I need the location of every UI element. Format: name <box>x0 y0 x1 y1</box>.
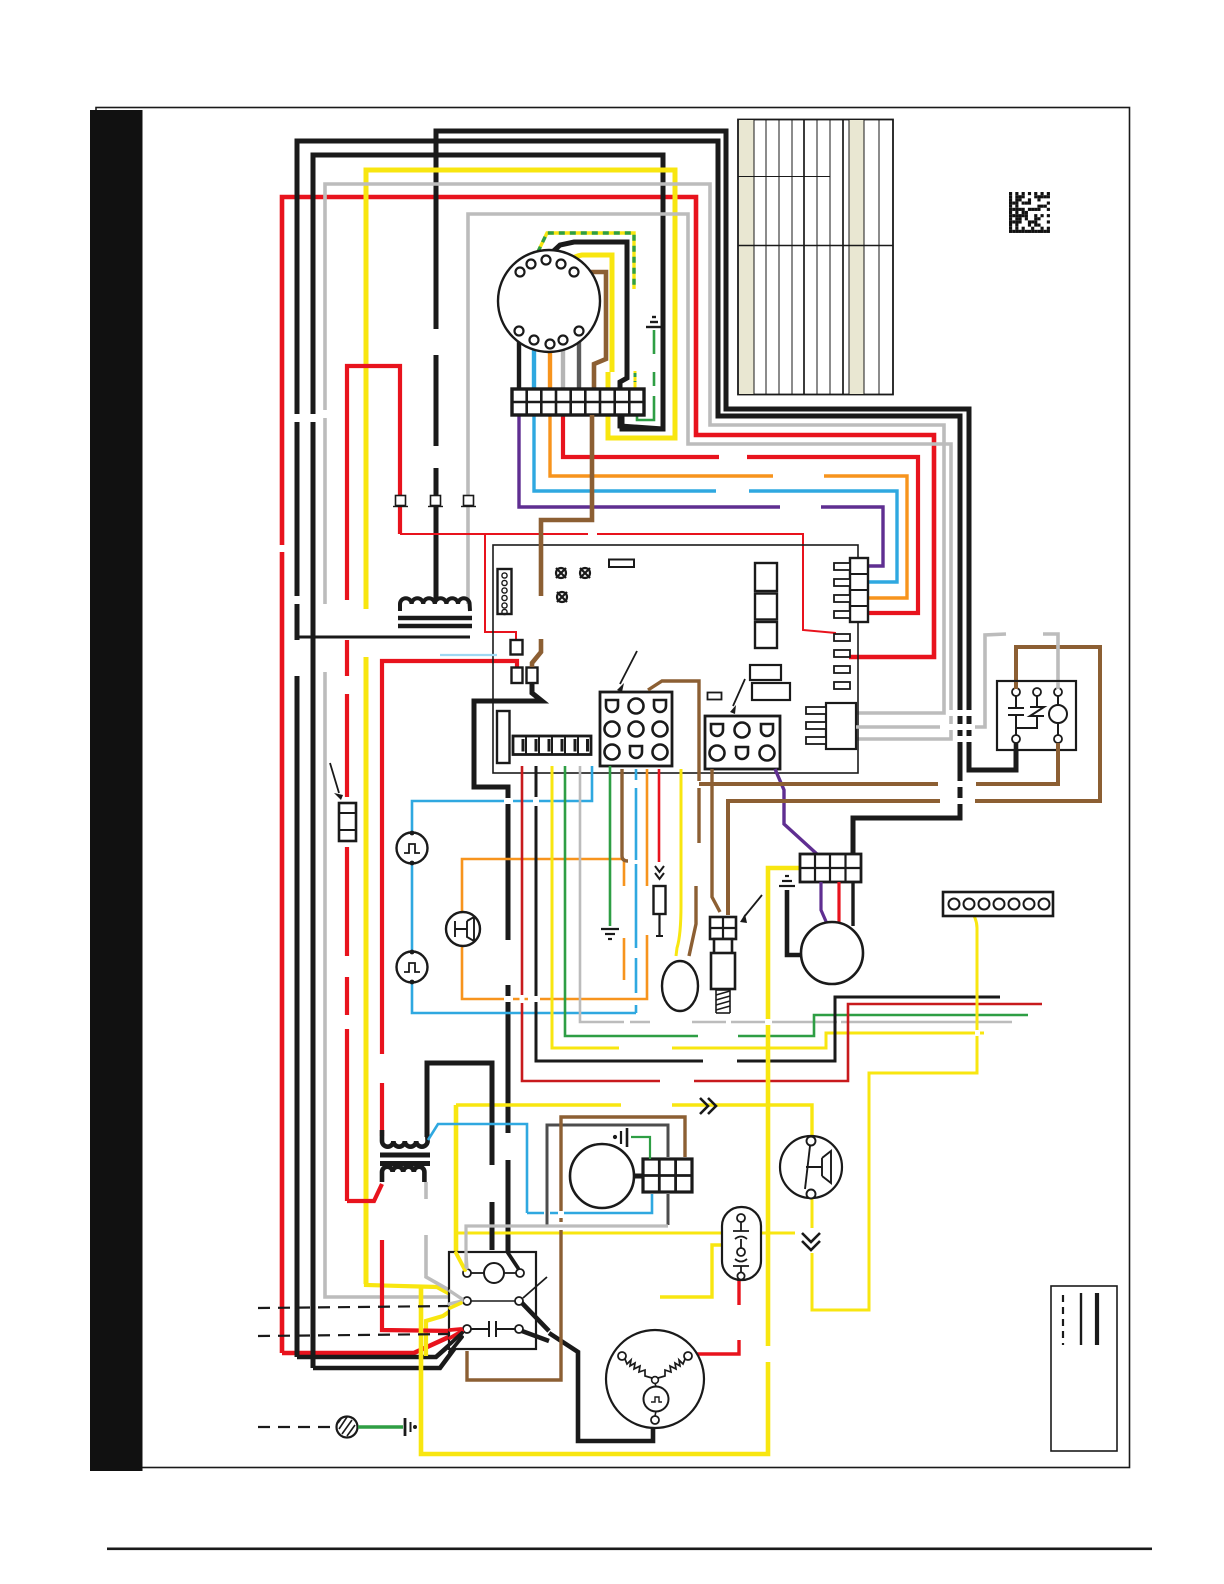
capacitor bank rect3 <box>755 622 777 648</box>
ground green wire at switch <box>637 330 654 420</box>
wire black bus B1 <box>436 131 1016 770</box>
wire gray bus GB <box>468 214 951 739</box>
wire brown relay B <box>699 739 1058 784</box>
wire thick black module ground <box>474 684 542 1268</box>
wire red thin fuse drop <box>485 534 516 641</box>
wire crossing breaks <box>279 545 286 552</box>
wire black bus B2 <box>297 141 960 1357</box>
ignition switch body <box>498 250 600 352</box>
wire purple to starter block <box>775 769 818 855</box>
wire red coil feed <box>382 661 517 1136</box>
arrow to 9-pin connector <box>620 651 637 684</box>
trigger link stub <box>634 1174 644 1179</box>
starter motor <box>801 922 863 984</box>
wire yellow-green striped safety lead <box>533 233 634 289</box>
9-pin round connector <box>600 692 672 766</box>
wire black pin lead <box>517 334 521 390</box>
ground symbol trigger <box>613 1128 627 1147</box>
hatched terminal circle <box>337 1417 358 1438</box>
wire red block to starter <box>837 882 840 934</box>
6-pin header inside module <box>498 569 512 615</box>
mounting hole X2 <box>580 568 590 578</box>
trigger connector grid 2x3 <box>643 1159 692 1192</box>
test spark plug <box>654 866 666 936</box>
wire blue pin lead <box>532 344 536 390</box>
wire yellow module to terminal strip <box>552 766 984 1048</box>
ignition coil transformer top <box>398 598 472 626</box>
wire black points to flywheel <box>522 1303 653 1441</box>
aux connector right edge <box>806 703 856 749</box>
wire orange pin lead <box>548 348 552 390</box>
wire brown relay A <box>728 647 1100 915</box>
small rect above 6-pin <box>708 693 722 700</box>
wire green trigger ground <box>631 1137 650 1159</box>
wire dark gray pin lead <box>577 334 581 390</box>
wire black module to terminal strip <box>536 766 1000 1061</box>
breaker points box <box>449 1252 547 1349</box>
sensor switch S1 <box>397 831 428 866</box>
left black sidebar <box>90 110 143 1471</box>
footer rule <box>107 1548 1152 1551</box>
connector block 2x4 <box>800 854 861 882</box>
connector block 9x2 under ignition switch <box>512 389 644 415</box>
wire blue from 9-pin <box>635 769 638 1013</box>
wire red inner loop to coil <box>347 1184 382 1201</box>
wire yellow stator bus <box>456 1105 812 1140</box>
sensor switch S2 <box>397 950 428 985</box>
wire brown 6-pin to sensor plug <box>712 769 720 912</box>
mounting hole X3 <box>557 592 567 602</box>
wire red flywheel to fuse holder <box>690 1278 739 1354</box>
safety ground dashed lead <box>258 1426 334 1428</box>
chevron marker right <box>700 1098 716 1114</box>
inline connector square on black wire <box>428 496 443 507</box>
capacitor in relay <box>1008 696 1024 735</box>
wire gray bus GA <box>325 184 944 1295</box>
wire red coil feed lower <box>382 1240 455 1331</box>
wire black block to starter <box>851 882 854 926</box>
trigger housing brown loop <box>467 1117 685 1380</box>
wire brown ignition to module <box>532 415 592 667</box>
dashed linkage line 1 <box>258 1306 452 1308</box>
ground symbol starter <box>779 876 795 886</box>
zener in relay <box>1016 696 1044 735</box>
terminal strip 7-pin <box>943 892 1053 916</box>
chevron marker down <box>802 1233 820 1250</box>
wire yellow main bus Y1 <box>366 170 675 1284</box>
power pack module outline <box>493 545 858 773</box>
page border frame <box>90 108 1152 1551</box>
wire purple ignition to module <box>519 413 883 566</box>
warning horn <box>446 912 480 946</box>
temp sensor plug <box>710 917 736 1013</box>
wire red R1 to breaker points <box>282 1331 462 1353</box>
wire yellow Y1 to breaker points <box>366 1284 463 1301</box>
component rect4 <box>750 665 781 680</box>
stator core bars <box>380 1153 430 1158</box>
ground symbol green <box>601 929 619 939</box>
terminal strip 6 cells <box>513 736 591 755</box>
stator secondary coil <box>382 1167 424 1182</box>
wire yellow fuse holder link <box>660 1245 736 1297</box>
vertical rect left of strip <box>497 711 510 763</box>
wire green module ground <box>609 766 612 926</box>
battery bars symbol <box>405 1418 417 1436</box>
wire gray GA to breaker points <box>325 1295 463 1300</box>
wire red inner loop <box>347 366 400 1201</box>
wire brown 9-pin jumper <box>648 681 699 956</box>
fuse element rect1 <box>511 640 523 655</box>
wire yellow lanyard drop <box>421 868 800 1454</box>
arrow to fuse <box>330 763 339 793</box>
wire purple block to starter <box>821 882 828 926</box>
wire yellow main drop <box>454 1105 459 1252</box>
trigger coil circle <box>570 1144 634 1208</box>
wire orange horn loop <box>462 769 647 999</box>
trigger housing gray box <box>547 1125 668 1225</box>
wire crossing breaks mid <box>504 798 513 804</box>
wire blue sensor loop <box>412 766 636 1013</box>
wire black stator frame <box>427 1063 492 1250</box>
wire black bus B3 <box>313 155 663 1368</box>
fuse element rect2 <box>512 668 523 684</box>
wire red module to terminal strip <box>522 766 1042 1081</box>
trigger housing gray base <box>466 1226 668 1268</box>
wire black B3 to breaker points <box>313 1337 463 1368</box>
wire gray rectifier link <box>856 634 1058 727</box>
primer solenoid oval <box>662 961 698 1011</box>
datamatrix code <box>1009 192 1050 233</box>
label rect on module <box>609 560 634 568</box>
wire black B2 to breaker points <box>297 1334 462 1357</box>
ignition switch pins <box>515 256 584 349</box>
fuse element rect3 <box>527 668 538 684</box>
fuse holder capsule <box>722 1207 761 1280</box>
meter circle in relay <box>1049 705 1067 723</box>
ground symbol switch <box>646 317 662 327</box>
wire black ignition lead <box>546 242 663 429</box>
right edge connector body <box>834 558 868 622</box>
wire red R2 ignition to module <box>563 413 918 613</box>
inline connector square on red wire <box>393 496 408 507</box>
ground bracket starter <box>787 890 800 955</box>
wire green safety ground <box>358 1425 403 1428</box>
wire yellow kill loop right <box>812 908 977 1310</box>
6-pin round connector <box>705 716 780 769</box>
small pad rects right side <box>834 634 850 689</box>
wire brown ignition lead <box>574 272 606 389</box>
wire gray pin lead <box>561 344 565 390</box>
wire blue ignition to module <box>534 413 897 582</box>
connector pin stubs <box>834 563 850 570</box>
wire yellow chevron branch <box>456 1232 795 1235</box>
capacitor in points box <box>471 1321 515 1337</box>
wire ignition switch yellow feed <box>565 255 612 372</box>
arrow to temp plug <box>744 895 762 917</box>
wire gray module to rectifier <box>580 766 1012 1022</box>
main horn <box>780 1136 842 1199</box>
legend box bottom right <box>1051 1286 1117 1451</box>
wire gray secondary to points <box>426 1182 463 1298</box>
wire stubs into points box <box>449 1253 518 1352</box>
wire green module to terminal strip <box>565 766 1028 1036</box>
wire black coil secondary <box>296 636 470 639</box>
stator transformer primary coil <box>382 1130 428 1147</box>
wire red main bus R1 <box>282 197 934 1353</box>
mounting hole X1 <box>556 568 566 578</box>
wire red thin module feed <box>400 534 836 633</box>
wire orange ignition to module <box>550 413 907 598</box>
wire yellow from 9-pin <box>676 769 681 956</box>
dashed linkage line 2 <box>258 1334 452 1336</box>
arrow to 6-pin connector <box>733 679 745 706</box>
parts table top right <box>738 120 893 395</box>
wire blue stator to trigger <box>428 1124 652 1213</box>
capacitor bank rect1 <box>755 563 777 591</box>
capacitor bank rect2 <box>755 594 777 620</box>
flywheel alternator <box>606 1330 704 1428</box>
inline connector square on gray wire <box>461 496 476 507</box>
wire yellow points hook <box>426 1303 462 1356</box>
wire red to test plug <box>658 769 661 862</box>
component rect5 <box>752 683 790 700</box>
fuse F1 <box>339 803 356 841</box>
rectifier relay box <box>997 681 1076 752</box>
wire blue module left <box>440 654 497 656</box>
